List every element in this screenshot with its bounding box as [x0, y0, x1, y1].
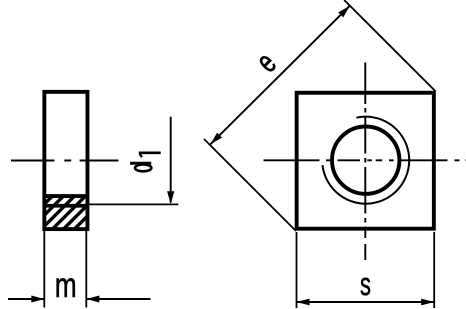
s dimension line [297, 301, 435, 303]
m dimension line right part [86, 298, 150, 300]
s arrow right [421, 299, 434, 306]
svg-text:m: m [55, 265, 77, 305]
subscript 1 stem [139, 152, 161, 155]
e arrow bottom-left [210, 133, 222, 145]
d stem (ascender, pointing left after rotation) [130, 162, 151, 165]
svg-text:s: s [360, 266, 371, 302]
hatch lines [19, 188, 127, 230]
hole circle [332, 127, 399, 194]
d1 arrow [167, 191, 174, 204]
subscript 1 flag [140, 154, 142, 158]
thread arc [323, 117, 410, 204]
horizontal center line right view [264, 159, 466, 161]
e arrow top-right [338, 6, 350, 18]
label e [249, 45, 283, 79]
hole line (minor) [44, 204, 88, 208]
vertical center line right view [364, 63, 366, 261]
e extension line top-right [344, 0, 435, 91]
d1 dimension line [170, 117, 172, 203]
thread major line [44, 194, 88, 198]
m dimension line left part [8, 298, 44, 300]
m arrow left [31, 296, 44, 303]
d bowl [135, 165, 151, 172]
e dimension line [210, 6, 350, 145]
m extension line left [43, 231, 45, 308]
s extension line left [296, 232, 298, 308]
d1 extension line [88, 203, 179, 205]
m extension line right [85, 231, 87, 308]
center line left view [11, 160, 119, 162]
square body [297, 93, 434, 229]
nut body rectangle [44, 92, 87, 229]
e extension line bottom-left [204, 139, 296, 231]
s arrow left [297, 299, 310, 306]
m arrow right [86, 296, 99, 303]
s extension line right [433, 232, 435, 308]
label d1 (drawn as CAD-style condensed glyphs, rotated 90 CCW) [130, 153, 161, 172]
